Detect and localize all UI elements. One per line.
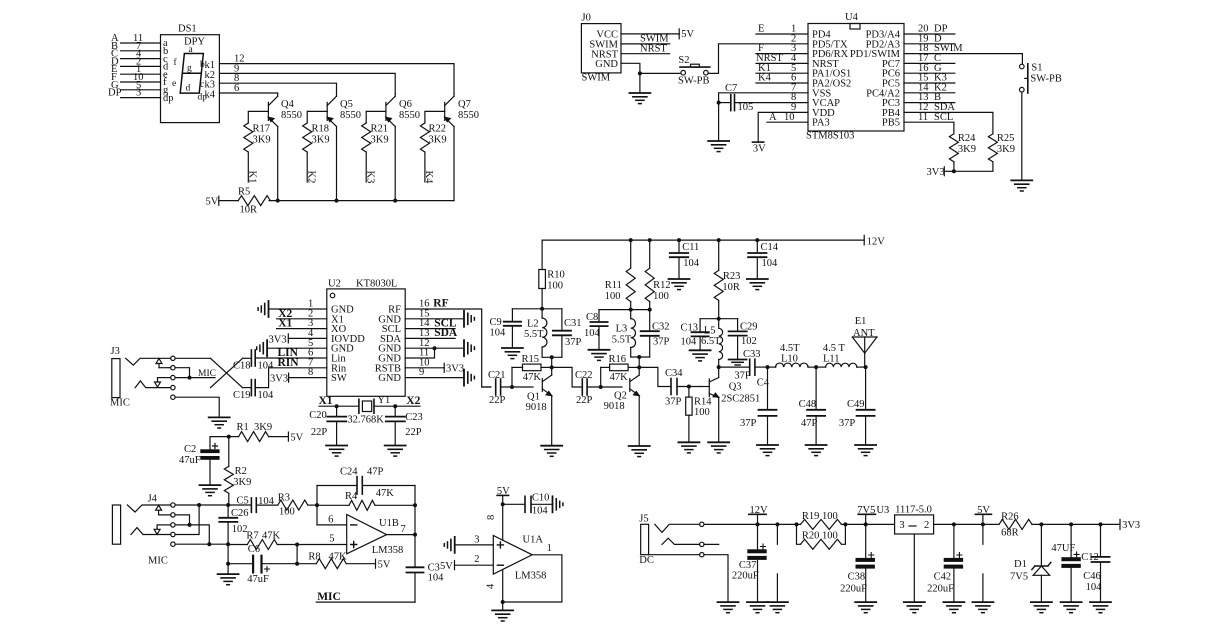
J4 switch arrow up xyxy=(156,505,171,515)
node J4 row5 xyxy=(207,542,211,546)
svg-text:L11: L11 xyxy=(823,354,840,365)
capacitor C33 37P xyxy=(734,349,767,382)
ground under C49 xyxy=(855,445,876,456)
svg-text:K4: K4 xyxy=(758,73,772,84)
node tank2 top C32 xyxy=(648,308,652,312)
ground under C48 xyxy=(806,445,827,456)
svg-text:K4: K4 xyxy=(423,171,434,185)
net label MIC wire xyxy=(316,591,415,603)
transistor Q3 2SC2851 xyxy=(709,367,760,442)
svg-text:1: 1 xyxy=(547,543,552,554)
wire segment D pin d (pin 2) xyxy=(111,56,161,67)
svg-text:37P: 37P xyxy=(740,418,757,429)
svg-text:D1: D1 xyxy=(1014,559,1027,570)
svg-text:3K9: 3K9 xyxy=(254,422,272,433)
power 5V tap for R5 xyxy=(206,196,239,207)
svg-text:J0: J0 xyxy=(582,13,591,24)
svg-text:47uF: 47uF xyxy=(247,574,269,585)
regulator U3 1117-5.0 xyxy=(895,505,934,534)
svg-text:5V: 5V xyxy=(378,559,391,570)
svg-text:3: 3 xyxy=(136,88,141,99)
svg-text:g: g xyxy=(187,64,192,74)
capacitor C42 220uF electrolytic xyxy=(927,524,962,602)
wire U1A pin3 from ground xyxy=(455,534,494,545)
node R7 right junction xyxy=(295,543,299,547)
svg-text:R15: R15 xyxy=(522,354,540,365)
resistor R2 3K9 vertical xyxy=(224,437,251,506)
svg-text:R12: R12 xyxy=(653,280,671,291)
wire segment A pin a (pin 11) xyxy=(111,33,161,44)
J3 switch arrow down xyxy=(155,378,171,387)
svg-text:7V5: 7V5 xyxy=(1010,572,1028,583)
svg-text:4.5 T: 4.5 T xyxy=(823,343,846,354)
svg-text:R10: R10 xyxy=(547,270,565,281)
svg-text:C49: C49 xyxy=(847,399,865,410)
wire J3 row2 to row3 xyxy=(175,368,189,378)
svg-text:S2: S2 xyxy=(678,55,689,66)
svg-text:22P: 22P xyxy=(576,395,593,406)
svg-text:8550: 8550 xyxy=(399,110,420,121)
display DS1 box xyxy=(161,24,220,123)
svg-text:K3: K3 xyxy=(364,171,375,184)
svg-text:Q5: Q5 xyxy=(340,99,353,110)
wire U2 pin13 net SDA xyxy=(405,327,458,339)
svg-text:3K9: 3K9 xyxy=(253,135,271,146)
svg-text:R4: R4 xyxy=(345,491,358,502)
J4 switch arrow down xyxy=(154,525,171,534)
wire U2 pin3 net X1 xyxy=(277,318,327,330)
svg-text:Q6: Q6 xyxy=(399,99,412,110)
wire to C18 left xyxy=(243,357,252,359)
ground under C20 xyxy=(326,446,347,457)
svg-text:C10: C10 xyxy=(532,493,550,504)
svg-text:C31: C31 xyxy=(564,318,582,329)
svg-text:R25: R25 xyxy=(997,133,1015,144)
svg-text:DP: DP xyxy=(108,88,122,99)
svg-text:47uF: 47uF xyxy=(179,455,201,466)
svg-text:d: d xyxy=(186,84,191,94)
ground under C8 xyxy=(589,350,610,361)
svg-text:37P: 37P xyxy=(734,371,751,382)
svg-text:104: 104 xyxy=(258,361,275,372)
svg-text:1117-5.0: 1117-5.0 xyxy=(895,505,932,516)
power 3V3 pullup rail xyxy=(927,167,956,178)
transistor Q7 8550 xyxy=(445,94,479,201)
ground under C13 xyxy=(690,350,711,361)
op-amp U1A LM358 xyxy=(493,534,546,581)
svg-text:11: 11 xyxy=(918,112,928,123)
resistor R24 3K9 xyxy=(949,133,976,171)
wire U4 pin1 net E xyxy=(756,24,808,35)
svg-text:SWIM: SWIM xyxy=(582,73,611,84)
connector J3 MIC jack xyxy=(110,346,130,409)
wire 12V rail top xyxy=(542,239,864,241)
connector J0 SWIM header xyxy=(581,13,621,84)
svg-text:J5: J5 xyxy=(639,514,648,525)
svg-text:R24: R24 xyxy=(958,133,976,144)
svg-text:104: 104 xyxy=(532,506,549,517)
wire U4 pin20 net DP xyxy=(904,24,955,35)
resistor R16 47K box style xyxy=(601,354,640,387)
node D1 junction xyxy=(1039,522,1043,526)
wire U1A output pin1 loop xyxy=(503,543,562,602)
capacitor C8 104 xyxy=(584,310,608,350)
wire J5 sleeve to ground xyxy=(704,555,728,602)
wire coupling to C22 xyxy=(552,367,583,387)
svg-text:22P: 22P xyxy=(311,427,328,438)
node 5V junction xyxy=(981,522,985,526)
wire U1A pin2 from 5V xyxy=(440,554,493,572)
svg-text:Y1: Y1 xyxy=(377,395,390,406)
ground under C23 xyxy=(385,446,406,457)
capacitor C3 104 xyxy=(407,535,445,603)
diode D1 7V5 zener xyxy=(1010,524,1051,602)
svg-text:C9: C9 xyxy=(490,317,502,328)
svg-text:R16: R16 xyxy=(609,354,627,365)
DS1 inner pin names a-dp xyxy=(163,38,174,104)
svg-text:3K9: 3K9 xyxy=(997,144,1015,155)
J4 tip contact xyxy=(127,505,170,512)
capacitor C26 102 xyxy=(219,505,248,544)
svg-text:47K: 47K xyxy=(376,488,395,499)
wire U4 pin7 VSS xyxy=(719,82,808,102)
resistor R7 47K xyxy=(228,530,297,549)
wire RF to C21 xyxy=(482,386,491,388)
capacitor C31 37P xyxy=(553,309,582,358)
wire feedback left vertical xyxy=(316,486,318,525)
wire feedback right vertical xyxy=(414,486,416,535)
svg-text:R19 100: R19 100 xyxy=(802,511,838,522)
wire rail U3 to R26 xyxy=(934,523,999,525)
ground sideways at U2 pin15 xyxy=(464,311,474,327)
transistor Q6 8550 xyxy=(386,94,420,201)
svg-text:37P: 37P xyxy=(653,336,670,347)
svg-text:3K9: 3K9 xyxy=(371,135,389,146)
capacitor C19 104 xyxy=(233,380,274,401)
resistor R12 100 xyxy=(645,240,670,310)
node R19 left xyxy=(795,522,799,526)
wire to C19 left xyxy=(243,387,252,389)
capacitor C20 22P xyxy=(309,406,346,445)
node tank3 top xyxy=(717,317,721,321)
wire J0 VCC to 5V xyxy=(621,33,679,35)
ground under R14 xyxy=(678,442,699,453)
wire coupling to C34 xyxy=(639,367,671,386)
svg-text:PA3: PA3 xyxy=(812,118,830,129)
svg-text:2: 2 xyxy=(474,554,479,565)
wire Q3 base xyxy=(700,386,709,388)
svg-text:37P: 37P xyxy=(565,337,582,348)
wire U4 pin17 net C xyxy=(904,53,955,64)
svg-text:DS1: DS1 xyxy=(178,24,197,35)
svg-text:GND: GND xyxy=(378,373,401,384)
svg-text:47UF: 47UF xyxy=(1051,543,1075,554)
ground under C7 xyxy=(708,103,729,152)
wire U2 pin15 GND xyxy=(405,308,464,319)
svg-text:X1: X1 xyxy=(319,395,333,407)
wire U2 pin6 Lin net LIN xyxy=(255,347,327,359)
ground under J3 xyxy=(209,417,230,428)
svg-text:DPY: DPY xyxy=(184,37,205,48)
svg-text:37P: 37P xyxy=(665,397,682,408)
node C37 junction xyxy=(756,522,760,526)
svg-text:104: 104 xyxy=(1086,582,1103,593)
tank2 top wire xyxy=(599,309,650,311)
J5 pin circles xyxy=(700,522,704,557)
capacitor stub broken 2 xyxy=(982,524,984,602)
svg-text:C46: C46 xyxy=(1083,571,1101,582)
node antenna junction xyxy=(864,365,868,369)
wire U4 pin11 net SCL to R24 xyxy=(904,112,954,134)
node dots on 12V rail xyxy=(629,238,760,242)
capacitor C18 104 xyxy=(233,350,274,372)
wire U3 pin1 to ground xyxy=(913,534,915,602)
svg-text:C20: C20 xyxy=(309,410,327,421)
svg-text:J4: J4 xyxy=(148,493,158,504)
node C6 left xyxy=(226,562,230,566)
svg-text:STM8S103: STM8S103 xyxy=(806,131,854,142)
ground under U1A xyxy=(492,610,513,621)
capacitor C7 105 xyxy=(719,83,808,113)
node stub1 junction xyxy=(775,522,779,526)
svg-text:R8: R8 xyxy=(308,551,320,562)
svg-text:C11: C11 xyxy=(682,242,699,253)
svg-text:3V3: 3V3 xyxy=(446,364,464,375)
svg-text:C29: C29 xyxy=(740,322,758,333)
wire U4 pin18 net SWIM to S1 xyxy=(904,43,1022,64)
capacitor C14 104 xyxy=(748,240,779,279)
svg-text:SW-PB: SW-PB xyxy=(1030,74,1062,85)
svg-text:104: 104 xyxy=(584,328,601,339)
svg-text:C2: C2 xyxy=(184,444,196,455)
wire U1A pin4 xyxy=(485,570,502,611)
ground sideways at U2 pin12 xyxy=(464,340,474,356)
J5 center contact xyxy=(655,524,700,532)
svg-text:6: 6 xyxy=(328,514,333,525)
svg-text:104: 104 xyxy=(490,328,507,339)
svg-text:220uF: 220uF xyxy=(927,583,954,594)
svg-text:U1A: U1A xyxy=(523,534,544,545)
node U1A pin8 xyxy=(501,502,505,506)
ground under D1 xyxy=(1031,602,1052,613)
svg-text:47K: 47K xyxy=(523,372,542,383)
capacitor C38 220uF electrolytic xyxy=(840,524,874,602)
capacitor C6 47uF electrolytic xyxy=(228,544,297,585)
svg-text:MIC: MIC xyxy=(110,398,130,409)
node R4 right xyxy=(413,503,417,507)
wire segment B pin b (pin 7) xyxy=(111,41,161,52)
tank3 top wire xyxy=(700,318,738,320)
capacitor C2 47uF electrolytic xyxy=(179,444,219,486)
wire U4 pin3 net F xyxy=(756,43,808,54)
net label SWIM wire xyxy=(621,34,670,45)
ground under C38 xyxy=(855,602,876,613)
svg-text:L5: L5 xyxy=(704,325,716,336)
U4 left pin names xyxy=(812,30,851,129)
resistor R4 47K feedback xyxy=(317,488,415,510)
svg-text:220uF: 220uF xyxy=(732,571,759,582)
wire U2 pin10 RSTB 3V3 xyxy=(405,357,464,374)
wire U4 pin19 net D xyxy=(904,33,955,44)
resistor R20 100 parallel xyxy=(797,524,846,549)
svg-text:6.5T: 6.5T xyxy=(701,336,721,347)
svg-text:DC: DC xyxy=(639,555,654,566)
svg-text:Q2: Q2 xyxy=(614,391,627,402)
transistor Q2 9018 xyxy=(604,357,640,446)
DS1 7-segment digit xyxy=(180,54,203,94)
wire U2 pin4 IOVDD 3V3 xyxy=(269,328,327,345)
node tank3 bottom xyxy=(717,365,721,369)
U4 right pin names xyxy=(850,30,901,129)
connector J4 MIC jack xyxy=(112,493,167,566)
svg-text:3K9: 3K9 xyxy=(958,144,976,155)
ground under C29 xyxy=(729,360,747,366)
svg-text:RF: RF xyxy=(433,298,448,310)
net label MIC on J3 row3 xyxy=(175,369,216,380)
svg-text:R11: R11 xyxy=(605,280,622,291)
wire U4 pin12 net SDA to R25 xyxy=(904,102,993,134)
svg-text:220uF: 220uF xyxy=(840,583,867,594)
node C4 junction xyxy=(766,365,770,369)
J3 second contact xyxy=(135,381,171,388)
svg-text:5V: 5V xyxy=(440,561,453,572)
svg-text:100: 100 xyxy=(653,291,669,302)
wire U1B pin5 xyxy=(297,534,347,545)
svg-text:9018: 9018 xyxy=(604,401,625,412)
resistor R18 3K9 xyxy=(303,111,330,182)
power 5V at R1 xyxy=(288,432,303,443)
power 5V bottom xyxy=(975,505,991,524)
node C12 junction xyxy=(1069,522,1073,526)
svg-text:J3: J3 xyxy=(111,346,120,357)
svg-text:100: 100 xyxy=(547,281,563,292)
capacitor C29 102 xyxy=(729,319,758,360)
svg-text:C22: C22 xyxy=(575,370,593,381)
resistor R23 10R xyxy=(714,240,740,319)
svg-text:C34: C34 xyxy=(665,368,683,379)
resistor R26 68R xyxy=(999,512,1120,539)
svg-text:MIC: MIC xyxy=(317,591,341,603)
svg-text:e: e xyxy=(172,79,176,89)
wire U4 pin9 VDD to 3V xyxy=(753,102,809,155)
ground under C46 xyxy=(1090,602,1111,613)
svg-text:10: 10 xyxy=(784,112,795,123)
svg-text:3: 3 xyxy=(474,534,479,545)
resistor R17 3K9 xyxy=(244,111,271,182)
node U1B output xyxy=(413,533,417,537)
net X1 wire to crystal xyxy=(319,395,359,408)
ground under J0 xyxy=(629,73,650,103)
wire J4 row2 to row3 xyxy=(175,515,189,525)
resistor R3 100 xyxy=(278,492,317,517)
wire J0 GND down xyxy=(621,63,640,73)
op-amp U1B LM358 xyxy=(347,515,406,557)
svg-text:U4: U4 xyxy=(845,12,859,23)
svg-text:3V3: 3V3 xyxy=(270,374,288,385)
resistor R11 100 xyxy=(605,240,635,310)
wire segment C pin c (pin 4) xyxy=(111,49,161,60)
tank2 bottom wire xyxy=(631,356,650,358)
svg-text:5: 5 xyxy=(329,534,334,545)
node VSS-VCAP junction xyxy=(717,101,721,105)
power 7V5 net xyxy=(857,505,889,524)
DS1 segment labels xyxy=(172,45,207,103)
transistor Q5 8550 xyxy=(327,94,361,201)
resistor R19 100 xyxy=(797,511,846,529)
svg-text:C23: C23 xyxy=(405,412,423,423)
svg-text:E: E xyxy=(758,24,764,35)
wire U4 pin13 net B xyxy=(904,92,955,103)
capacitor C11 104 xyxy=(670,240,700,279)
tank1 bottom wire xyxy=(542,356,562,358)
wire U4 pin14 net K2 xyxy=(904,82,955,93)
switch S2 SW-PB xyxy=(678,55,710,86)
power 5V at J0 VCC xyxy=(679,29,694,40)
svg-text:SW-PB: SW-PB xyxy=(678,75,710,86)
svg-text:10R: 10R xyxy=(240,205,258,216)
node tank1 top xyxy=(540,307,544,311)
svg-text:R18: R18 xyxy=(312,124,330,135)
wire U2 pin12 GND xyxy=(405,338,464,350)
svg-text:A: A xyxy=(769,112,777,123)
capacitor C12 47UF electrolytic xyxy=(1051,524,1098,602)
wire J4 row4 up to row1 xyxy=(175,505,199,535)
J4 second contact xyxy=(131,528,171,535)
resistor R21 3K9 xyxy=(362,111,389,182)
svg-text:C13: C13 xyxy=(681,323,699,334)
svg-text:8550: 8550 xyxy=(458,110,479,121)
svg-text:L2: L2 xyxy=(527,318,539,329)
resistor R22 3K9 xyxy=(420,111,446,182)
svg-text:104: 104 xyxy=(428,573,445,584)
ground under C12 xyxy=(1061,602,1082,613)
svg-text:R5: R5 xyxy=(238,187,250,198)
wire segment E pin e (pin 1) xyxy=(111,64,161,75)
wire k3 pin 8 to Q5 collector xyxy=(219,73,336,93)
resistor R10 100 box style xyxy=(539,240,565,309)
node R16 collector junction xyxy=(637,365,641,369)
wire GND to S2 xyxy=(640,72,681,74)
svg-text:102: 102 xyxy=(741,336,757,347)
svg-text:3K9: 3K9 xyxy=(312,135,330,146)
svg-text:R14: R14 xyxy=(694,397,712,408)
capacitor C24 47P feedback xyxy=(317,467,415,495)
ground under Q1 xyxy=(541,446,562,457)
wire U2 pin5 GND left xyxy=(267,338,327,349)
capacitor C10 104 xyxy=(503,493,553,517)
svg-text:Q7: Q7 xyxy=(458,99,471,110)
capacitor C22 22P xyxy=(575,370,622,406)
svg-text:R26: R26 xyxy=(1001,512,1019,523)
node R15 collector junction xyxy=(550,365,554,369)
svg-text:X2: X2 xyxy=(406,395,420,407)
capacitor C46 104 xyxy=(1083,524,1109,602)
svg-text:5.5T: 5.5T xyxy=(612,335,632,346)
node R1 R2 C2 junction xyxy=(227,435,231,439)
wire tank3 to C33 xyxy=(719,366,750,368)
wire U1B pin6 xyxy=(317,514,347,525)
node C38 junction xyxy=(864,522,868,526)
svg-text:C38: C38 xyxy=(848,572,866,583)
capacitor C32 37P xyxy=(641,310,670,357)
resistor R25 3K9 xyxy=(954,133,1015,171)
connector J5 DC jack xyxy=(639,514,654,566)
svg-text:K1: K1 xyxy=(247,171,258,184)
svg-text:R20 100: R20 100 xyxy=(802,531,838,542)
svg-text:C6: C6 xyxy=(248,544,260,555)
svg-text:C14: C14 xyxy=(761,242,779,253)
wire X crossing diagonal down xyxy=(211,358,243,387)
